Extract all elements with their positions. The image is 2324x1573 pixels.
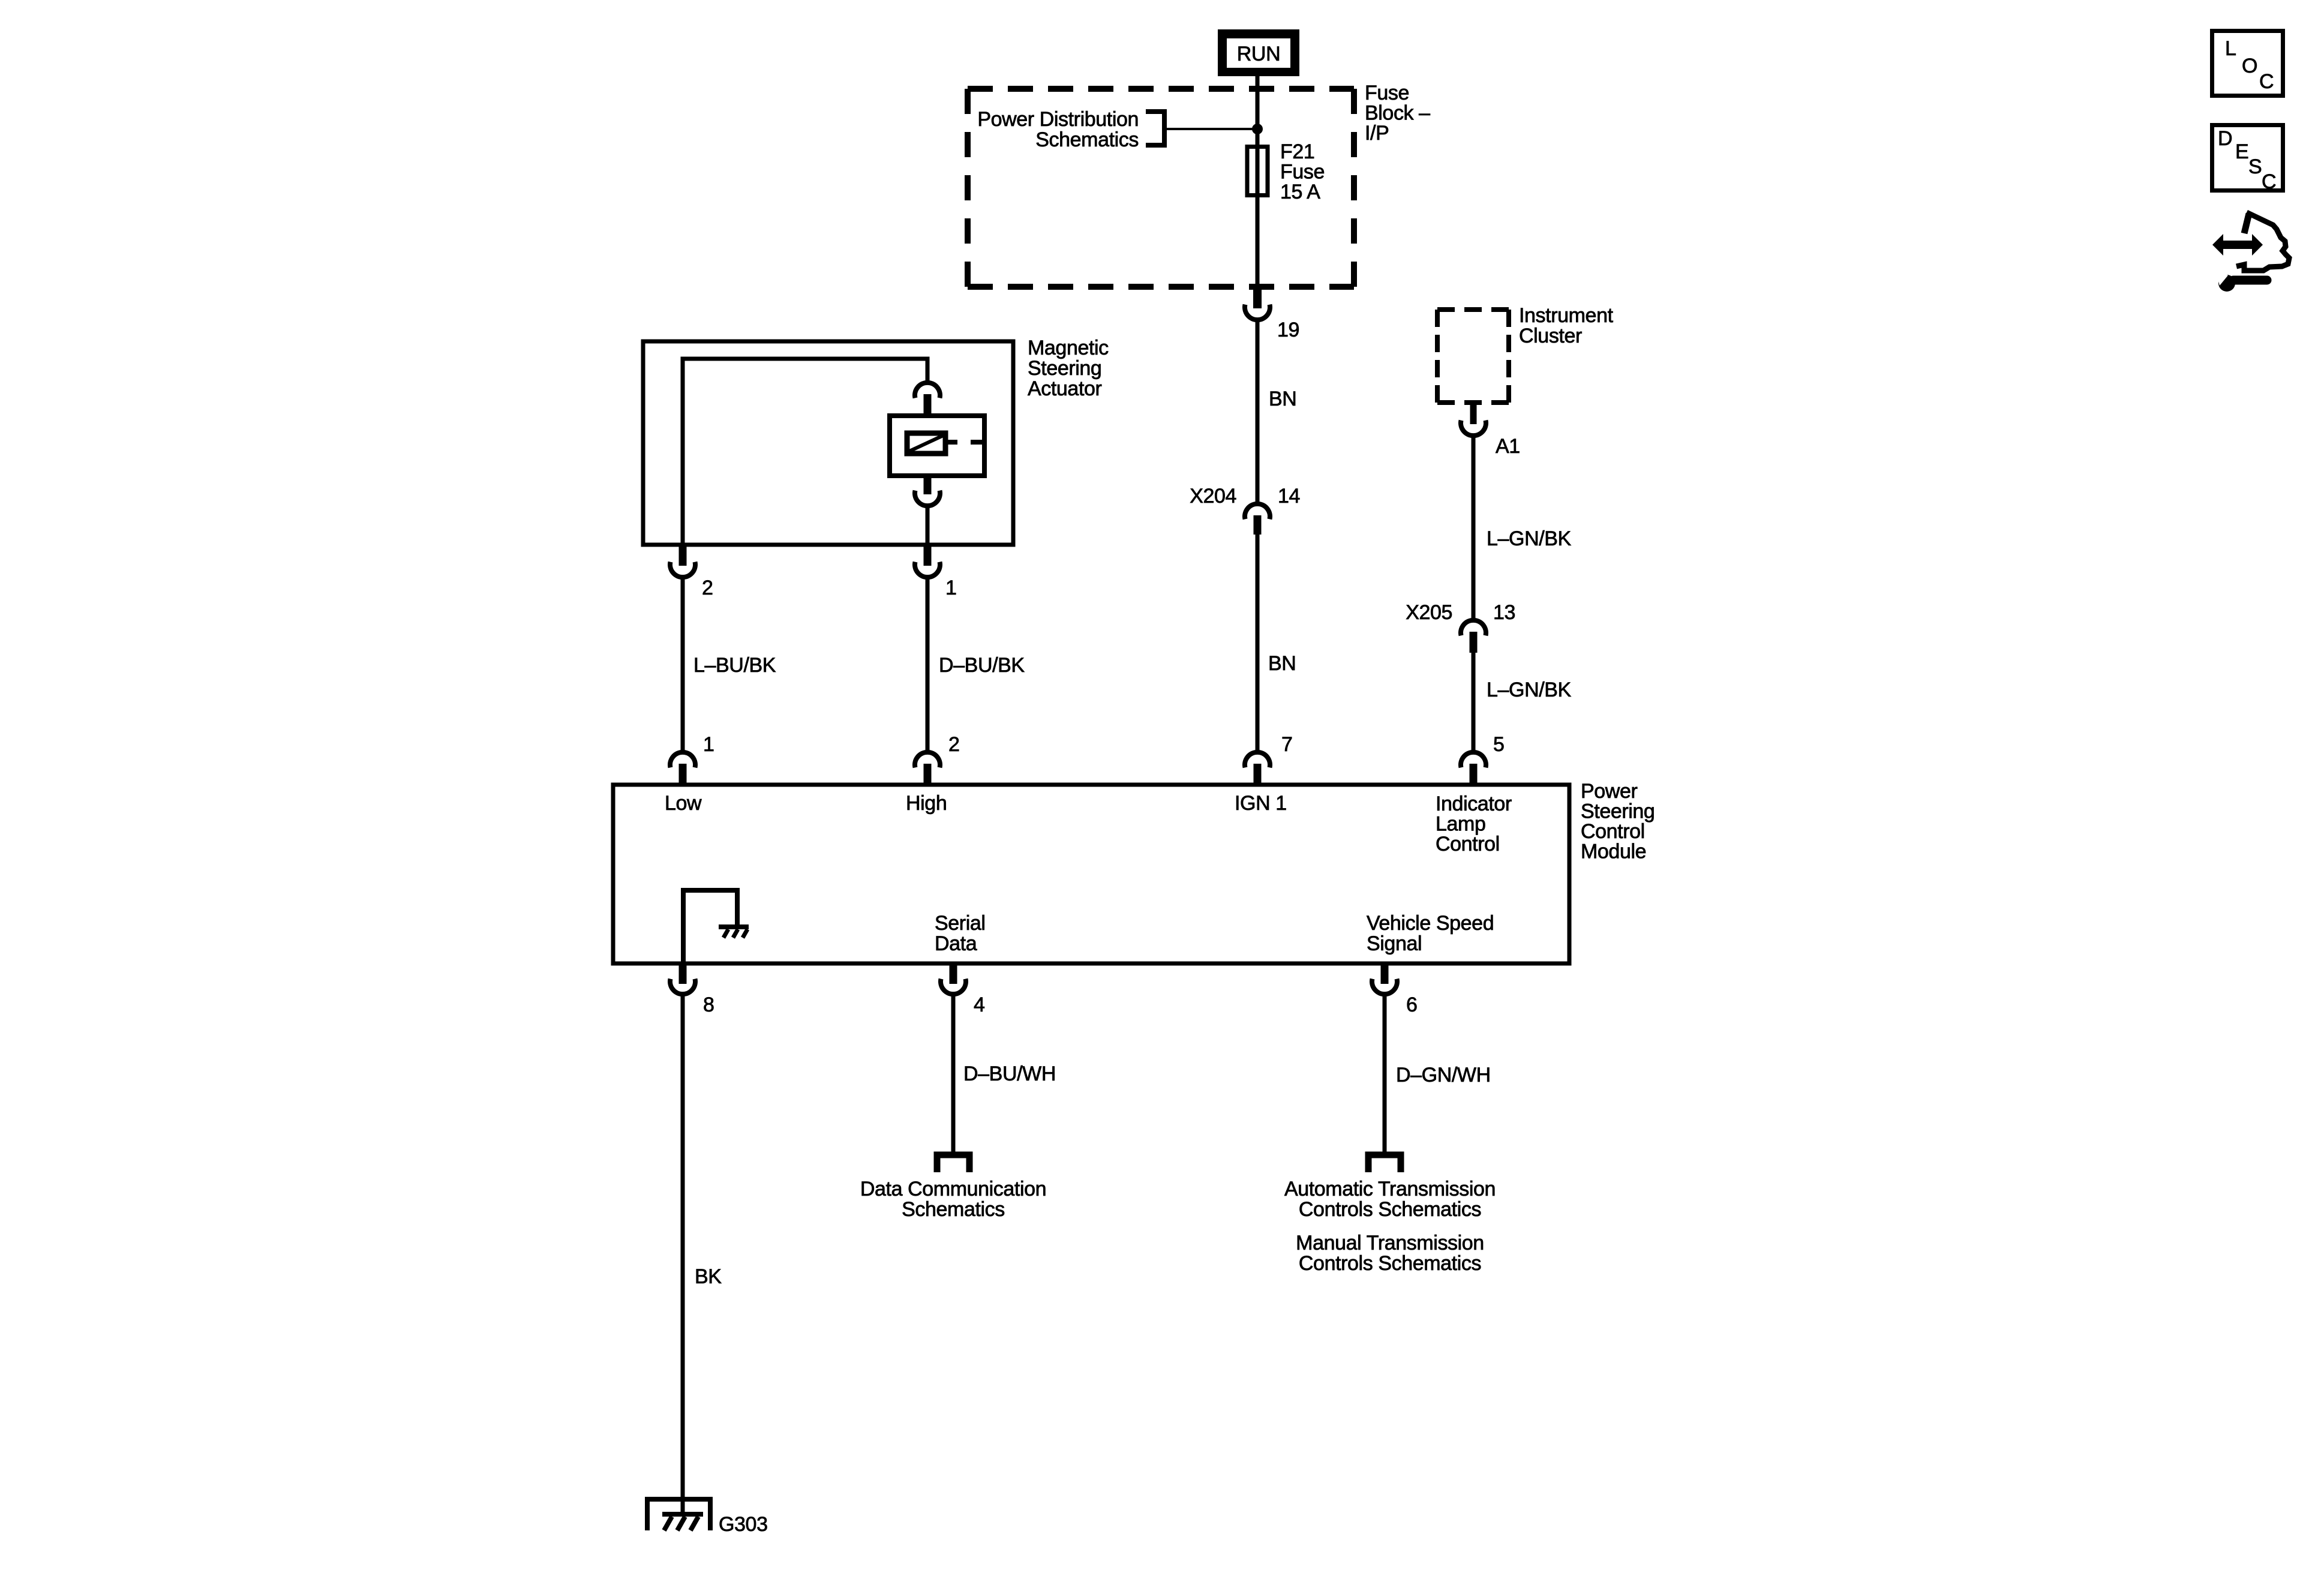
DESC legend box [2212, 125, 2283, 194]
svg-text:G303: G303 [719, 1513, 768, 1536]
svg-text:Steering: Steering [1028, 357, 1101, 380]
svg-text:Steering: Steering [1581, 800, 1655, 823]
svg-text:L–GN/BK: L–GN/BK [1487, 527, 1572, 550]
svg-text:X205: X205 [1406, 601, 1452, 624]
module internal chassis ground symbol [719, 927, 749, 938]
svg-text:Manual Transmission: Manual Transmission [1296, 1232, 1484, 1254]
svg-text:4: 4 [974, 993, 985, 1016]
ignition switch RUN position box [1218, 29, 1299, 76]
label Power Steering Control Module [1581, 780, 1655, 863]
svg-text:C: C [2262, 170, 2276, 193]
svg-text:Automatic Transmission: Automatic Transmission [1284, 1178, 1496, 1200]
label Serial Data [935, 912, 986, 955]
label 1 (module pin) [703, 733, 714, 756]
label Indicator Lamp Control [1436, 792, 1512, 855]
cluster terminal A1 connector [1461, 405, 1486, 436]
actuator internal loop wire [683, 359, 927, 545]
svg-text:14: 14 [1278, 485, 1300, 508]
wire from RUN to fuse F21 [1256, 76, 1260, 290]
inline connector X205 terminal 13 [1461, 620, 1486, 653]
svg-text:Fuse: Fuse [1365, 82, 1409, 104]
magnetic steering actuator box [643, 341, 1013, 545]
svg-text:Actuator: Actuator [1028, 377, 1101, 400]
svg-text:Signal: Signal [1367, 932, 1422, 955]
label X204 [1190, 485, 1236, 508]
wire L-GN/BK upper [1472, 436, 1476, 620]
label 6 [1406, 993, 1418, 1016]
svg-text:I/P: I/P [1365, 122, 1389, 145]
actuator internal connector (top) [915, 383, 940, 416]
instrument cluster dashed box [1437, 310, 1509, 403]
label Power Distribution Schematics [977, 108, 1139, 151]
svg-text:X204: X204 [1190, 485, 1236, 508]
svg-text:1: 1 [945, 577, 957, 599]
label Instrument Cluster [1519, 304, 1614, 347]
svg-text:IGN 1: IGN 1 [1235, 792, 1287, 815]
tie wire from bracket to junction [1167, 128, 1257, 130]
connector terminal 19 [1245, 290, 1270, 320]
label 2 (actuator pin) [702, 577, 713, 599]
svg-text:13: 13 [1493, 601, 1515, 624]
svg-text:Block –: Block – [1365, 102, 1430, 125]
module pin 5 connector (Indicator) [1461, 752, 1486, 785]
label Magnetic Steering Actuator [1028, 337, 1109, 400]
actuator internal connector (bottom) [915, 476, 940, 506]
label 2 (module pin) [948, 733, 960, 756]
wire solenoid to actuator pin 1 [926, 506, 930, 545]
label L-GN/BK (lower) [1487, 679, 1572, 701]
wire D-BU/WH [951, 994, 956, 1155]
wire L-GN/BK lower [1472, 653, 1476, 751]
wire BK to ground [681, 994, 685, 1499]
label A1 [1496, 435, 1520, 458]
reference bracket (Power Distribution Schematics) [1146, 112, 1164, 145]
label BN (lower) [1268, 652, 1296, 675]
junction dot on IGN feed [1252, 124, 1263, 134]
svg-text:8: 8 [703, 993, 714, 1016]
label BK [695, 1265, 722, 1288]
svg-text:Power Distribution: Power Distribution [977, 108, 1139, 131]
svg-text:S: S [2248, 155, 2262, 178]
svg-text:BN: BN [1269, 388, 1296, 410]
actuator pin 1 connector [915, 545, 940, 577]
svg-text:Lamp: Lamp [1436, 813, 1485, 836]
wire L-BU/BK [681, 577, 685, 751]
solenoid interface wires [945, 440, 984, 445]
power steering control module box [613, 785, 1569, 963]
module pin 2 connector (High) [915, 752, 940, 785]
module pin 7 connector (IGN 1) [1245, 752, 1270, 785]
svg-text:Data: Data [935, 932, 977, 955]
label Fuse Block - I/P [1365, 82, 1430, 145]
label D-GN/WH [1396, 1064, 1491, 1086]
svg-text:Vehicle Speed: Vehicle Speed [1367, 912, 1494, 935]
svg-text:15 A: 15 A [1280, 181, 1320, 203]
svg-text:D–GN/WH: D–GN/WH [1396, 1064, 1491, 1086]
svg-text:High: High [906, 792, 947, 815]
svg-text:Module: Module [1581, 840, 1646, 863]
svg-text:Indicator: Indicator [1436, 792, 1512, 815]
svg-text:2: 2 [948, 733, 960, 756]
svg-text:5: 5 [1493, 733, 1505, 756]
label L-GN/BK (upper) [1487, 527, 1572, 550]
destination bracket (transmission controls) [1368, 1155, 1401, 1172]
solenoid assembly box [890, 416, 984, 476]
label 7 (module pin) [1281, 733, 1293, 756]
svg-text:1: 1 [703, 733, 714, 756]
module internal ground wire [683, 890, 737, 962]
svg-text:O: O [2242, 55, 2257, 77]
ground G303 symbol [647, 1499, 710, 1530]
svg-text:Serial: Serial [935, 912, 986, 935]
svg-text:L–BU/BK: L–BU/BK [693, 654, 776, 677]
wire BN lower segment [1256, 535, 1260, 751]
module pin 8 connector [670, 963, 695, 994]
label Low [665, 792, 702, 815]
svg-text:Control: Control [1581, 820, 1645, 843]
label 4 [974, 993, 985, 1016]
module pin 6 connector (Vehicle Speed) [1372, 963, 1397, 994]
svg-text:2: 2 [702, 577, 713, 599]
svg-text:Controls Schematics: Controls Schematics [1299, 1198, 1481, 1221]
svg-text:L: L [2225, 37, 2236, 60]
svg-text:Schematics: Schematics [1035, 128, 1139, 151]
fuse block I/P dashed box [968, 89, 1354, 287]
wire BN upper segment [1256, 320, 1260, 503]
svg-text:Magnetic: Magnetic [1028, 337, 1109, 359]
svg-text:Controls Schematics: Controls Schematics [1299, 1252, 1481, 1275]
label D-BU/BK [939, 654, 1025, 677]
label BN (upper) [1269, 388, 1296, 410]
label X205 [1406, 601, 1452, 624]
svg-text:Schematics: Schematics [902, 1198, 1005, 1221]
svg-text:6: 6 [1406, 993, 1418, 1016]
label 19 [1277, 319, 1299, 341]
svg-text:Data Communication: Data Communication [860, 1178, 1046, 1200]
module pin 1 connector (Low) [670, 752, 695, 785]
label D-BU/WH [963, 1062, 1056, 1085]
label G303 [719, 1513, 768, 1536]
inline connector X204 terminal 14 [1245, 504, 1270, 535]
svg-text:Cluster: Cluster [1519, 325, 1582, 347]
label 1 (actuator pin) [945, 577, 957, 599]
svg-text:D–BU/WH: D–BU/WH [963, 1062, 1056, 1085]
svg-text:F21: F21 [1280, 140, 1314, 163]
label Manual Transmission Controls Schematics [1296, 1232, 1484, 1275]
label 8 [703, 993, 714, 1016]
svg-text:L–GN/BK: L–GN/BK [1487, 679, 1572, 701]
label L-BU/BK [693, 654, 776, 677]
svg-text:BK: BK [695, 1265, 722, 1288]
svg-text:Instrument: Instrument [1519, 304, 1614, 327]
label F21 Fuse 15 A [1280, 140, 1325, 203]
LOC legend box [2212, 31, 2283, 96]
label Vehicle Speed Signal [1367, 912, 1494, 955]
svg-text:Control: Control [1436, 833, 1500, 855]
label 5 (module pin) [1493, 733, 1505, 756]
svg-text:BN: BN [1268, 652, 1296, 675]
svg-text:Fuse: Fuse [1280, 161, 1325, 184]
svg-text:Power: Power [1581, 780, 1637, 803]
svg-text:A1: A1 [1496, 435, 1520, 458]
label Automatic Transmission Controls Schematics [1284, 1178, 1496, 1221]
solenoid coil symbol [907, 433, 945, 454]
wire D-GN/WH [1383, 994, 1387, 1155]
svg-text:C: C [2259, 70, 2274, 93]
label IGN 1 [1235, 792, 1287, 815]
wire D-BU/BK [926, 577, 930, 751]
svg-text:D: D [2218, 127, 2232, 150]
actuator pin 2 connector [670, 545, 695, 577]
svg-text:7: 7 [1281, 733, 1293, 756]
svg-text:Low: Low [665, 792, 702, 815]
label Data Communication Schematics [860, 1178, 1046, 1221]
svg-text:19: 19 [1277, 319, 1299, 341]
label 14 [1278, 485, 1300, 508]
svg-text:RUN: RUN [1237, 43, 1280, 65]
label High [906, 792, 947, 815]
fuse F21 15A [1247, 147, 1268, 196]
module pin 4 connector (Serial Data) [941, 963, 966, 994]
navigation arrow and wrench icon [2212, 212, 2289, 292]
label 13 [1493, 601, 1515, 624]
svg-text:D–BU/BK: D–BU/BK [939, 654, 1025, 677]
destination bracket (data communication) [937, 1155, 969, 1172]
svg-text:E: E [2235, 140, 2248, 163]
